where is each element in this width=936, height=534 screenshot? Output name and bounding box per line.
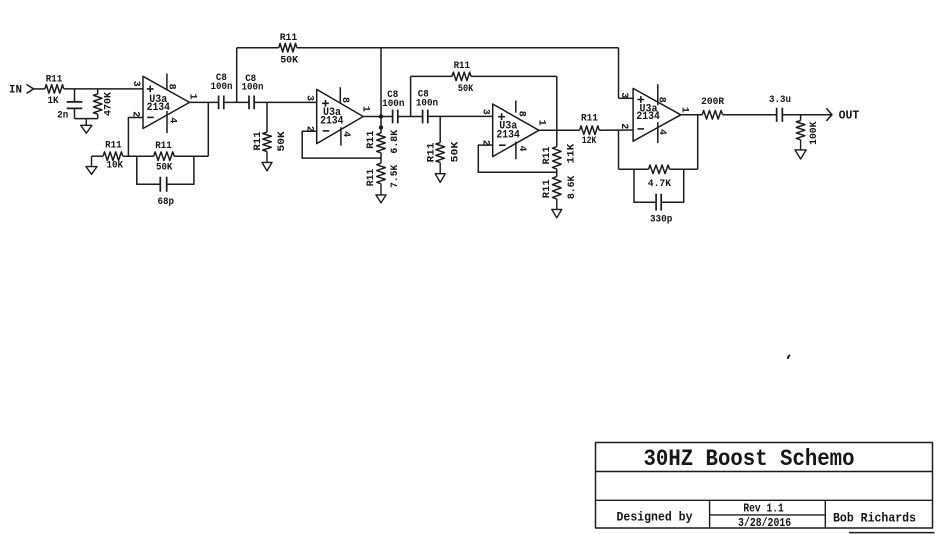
svg-text:R11: R11 xyxy=(541,147,553,165)
svg-text:R11: R11 xyxy=(581,113,598,125)
resistor R11 50K (stage2 input shunt) xyxy=(252,102,288,151)
title block outer frame xyxy=(596,443,933,529)
wire feedback rail right segment and riser to U4 output xyxy=(670,115,698,170)
ground (stage2 divider) xyxy=(376,184,386,203)
svg-text:Designed by: Designed by xyxy=(617,511,693,525)
resistor R11 50K (stage3 input shunt) xyxy=(425,116,461,162)
resistor R11 12K xyxy=(580,113,600,147)
svg-text:8: 8 xyxy=(656,97,667,103)
svg-text:100n: 100n xyxy=(416,97,438,109)
svg-text:3: 3 xyxy=(618,92,629,98)
svg-text:3: 3 xyxy=(304,95,315,101)
wire top rail left segment xyxy=(237,47,279,49)
svg-text:330p: 330p xyxy=(650,213,673,225)
wire C8 to U3 pin 3 xyxy=(428,115,493,117)
svg-text:3: 3 xyxy=(480,109,491,115)
svg-text:Bob Richards: Bob Richards xyxy=(833,511,916,525)
svg-text:R11: R11 xyxy=(454,60,470,72)
svg-text:10K: 10K xyxy=(107,160,124,172)
svg-text:R11: R11 xyxy=(46,73,63,85)
op-amp U3a 2134 (stage 4) xyxy=(618,84,690,143)
capacitor C8 100n (third coupling) xyxy=(382,89,404,123)
svg-text:2134: 2134 xyxy=(636,111,660,123)
svg-text:1: 1 xyxy=(535,120,546,126)
svg-text:1: 1 xyxy=(679,107,690,113)
wire top rail right segment to U4 pin3 riser xyxy=(297,48,619,99)
wire U2 output node down to R11 6.8K xyxy=(380,117,382,134)
svg-text:2134: 2134 xyxy=(496,129,520,141)
wire IN port to R11 1K xyxy=(34,88,45,90)
scan speck xyxy=(788,355,791,359)
wire U3 output node down to R11 11K xyxy=(556,130,558,146)
svg-text:11K: 11K xyxy=(566,143,578,163)
wire feedback rail left segment xyxy=(619,168,649,170)
ground (stage3 input shunt) xyxy=(435,163,445,183)
svg-text:100n: 100n xyxy=(242,82,264,94)
wire C8 to C8 with rail2 riser xyxy=(398,116,423,118)
title block edge segment bottom right xyxy=(849,532,935,534)
svg-text:4: 4 xyxy=(166,117,177,123)
svg-text:50K: 50K xyxy=(458,83,474,95)
wire R11 50K to output riser xyxy=(174,102,208,156)
wire U4 pin3 stub from top rail riser xyxy=(619,97,634,99)
resistor R11 6.8K xyxy=(365,129,401,153)
svg-text:2134: 2134 xyxy=(147,102,171,114)
svg-text:4: 4 xyxy=(516,145,527,151)
svg-text:R11: R11 xyxy=(252,131,264,150)
ground (input RC) xyxy=(81,119,92,134)
riser top rail to U2 output node xyxy=(380,48,382,117)
svg-text:50K: 50K xyxy=(449,141,461,162)
wire 6.8K to 7.5K junction xyxy=(380,153,382,163)
svg-text:100n: 100n xyxy=(382,98,404,110)
svg-text:R11: R11 xyxy=(365,169,377,187)
wire rail2 left segment xyxy=(411,75,452,77)
svg-text:2: 2 xyxy=(130,111,141,117)
wire 200R to 3.3u xyxy=(723,114,777,116)
svg-text:470K: 470K xyxy=(102,91,114,116)
svg-text:2134: 2134 xyxy=(320,115,344,127)
wire R11 1K to U1 pin 3 (input net) xyxy=(64,88,143,90)
capacitor 330p (parallel feedback) xyxy=(634,169,684,225)
capacitor C8 100n (first coupling) xyxy=(211,72,233,109)
wire 2n to 470K bottom rail xyxy=(75,118,98,120)
wire C8 to U2 pin 3 xyxy=(254,101,317,103)
svg-text:8.6K: 8.6K xyxy=(566,175,578,199)
svg-text:IN: IN xyxy=(9,84,22,96)
svg-text:2: 2 xyxy=(618,123,629,129)
capacitor C8 100n (second coupling) xyxy=(242,73,264,109)
capacitor 2n (input shunt) xyxy=(57,89,82,122)
capacitor 68p (parallel feedback) xyxy=(137,156,194,208)
riser to stage3 feedback rail xyxy=(410,76,412,116)
wire U4 output xyxy=(681,114,702,116)
wire U3 output xyxy=(539,129,580,131)
capacitor 3.3u (output coupling) xyxy=(769,94,791,122)
port IN connector chevron xyxy=(27,84,34,93)
svg-text:3/28/2016: 3/28/2016 xyxy=(738,517,791,530)
ground (stage2 input shunt) xyxy=(262,152,272,171)
svg-text:50K: 50K xyxy=(280,55,299,67)
resistor R11 50K (stage3 feedback) xyxy=(452,60,474,95)
ground (output shunt) xyxy=(795,140,806,159)
svg-text:8: 8 xyxy=(166,84,177,90)
svg-text:4.7K: 4.7K xyxy=(648,178,672,190)
svg-text:2n: 2n xyxy=(57,110,68,122)
wire U1 pin2 stub xyxy=(128,118,143,157)
ground (stage1 feedback) xyxy=(86,156,97,174)
resistor R11 10K xyxy=(103,139,124,171)
resistor 470K (input shunt) xyxy=(93,89,114,119)
wire U2 output to C8 xyxy=(363,116,392,118)
resistor R11 11K xyxy=(541,143,577,169)
svg-text:3: 3 xyxy=(130,81,141,87)
resistor 100K (output shunt) xyxy=(796,115,820,145)
svg-text:50K: 50K xyxy=(276,131,288,152)
wire U1 pin1 output xyxy=(190,101,219,103)
svg-text:R11: R11 xyxy=(155,140,172,152)
op-amp U3a 2134 (stage 3) xyxy=(480,101,547,160)
svg-text:50K: 50K xyxy=(156,161,173,173)
riser U4 pin2 node to feedback rail xyxy=(618,130,620,169)
capacitor C8 100n (fourth coupling) xyxy=(416,88,438,123)
svg-text:8: 8 xyxy=(339,97,350,103)
title block line above bottom row xyxy=(596,499,933,501)
junction dot U2 output node xyxy=(379,114,383,118)
resistor R11 8.6K xyxy=(541,175,578,199)
svg-text:68p: 68p xyxy=(158,196,175,208)
svg-text:1K: 1K xyxy=(48,95,60,107)
resistor R11 50K (stage1 feedback) xyxy=(154,140,174,174)
op-amp U3a 2134 (stage 2) xyxy=(304,87,371,145)
title block line under title xyxy=(596,471,933,473)
svg-text:OUT: OUT xyxy=(839,110,860,123)
title block mid line between Rev and date xyxy=(710,514,826,516)
svg-text:4: 4 xyxy=(656,129,667,135)
junction dot on divider wire xyxy=(379,125,383,129)
title block divider Designed-by / Rev xyxy=(709,500,711,528)
op-amp U3a 2134 (stage 1) xyxy=(130,74,198,133)
svg-text:R11: R11 xyxy=(365,131,377,149)
wire 12K to U4 pin 2 xyxy=(599,129,633,131)
svg-text:30HZ Boost Schemo: 30HZ Boost Schemo xyxy=(644,446,855,472)
svg-text:7.5K: 7.5K xyxy=(389,164,401,188)
ground (stage3 divider) xyxy=(552,199,562,218)
port OUT arrowhead xyxy=(826,108,832,121)
svg-text:100n: 100n xyxy=(211,81,233,93)
svg-text:100K: 100K xyxy=(808,121,820,145)
title block divider Rev / Bob Richards xyxy=(824,500,826,528)
svg-text:200R: 200R xyxy=(701,96,725,108)
svg-text:Rev 1.1: Rev 1.1 xyxy=(743,503,783,516)
resistor R11 1K xyxy=(45,73,64,107)
svg-text:12K: 12K xyxy=(582,135,597,147)
svg-text:6.8K: 6.8K xyxy=(389,129,401,153)
wire ground to R11 10K xyxy=(92,155,104,157)
resistor R11 50K (top rail) xyxy=(279,32,299,67)
svg-text:R11: R11 xyxy=(280,32,298,44)
resistor R11 7.5K xyxy=(365,163,401,188)
wire R11 10K to R11 50K (node pin2) xyxy=(123,155,154,157)
svg-text:R11: R11 xyxy=(105,139,122,151)
wire 3.3u to OUT arrow xyxy=(782,114,832,116)
svg-text:1: 1 xyxy=(359,106,370,112)
svg-text:3.3u: 3.3u xyxy=(769,94,791,106)
svg-text:R11: R11 xyxy=(541,179,553,198)
svg-text:1: 1 xyxy=(186,93,197,99)
wire U2 pin2 stub to divider xyxy=(302,131,381,158)
wire rail2 right segment and riser to U3 output xyxy=(471,76,557,130)
svg-text:4: 4 xyxy=(340,131,351,137)
svg-text:R11: R11 xyxy=(425,143,437,163)
riser to top feedback rail xyxy=(236,48,238,103)
resistor 200R xyxy=(701,96,725,119)
wire C8 to C8 (node with riser) xyxy=(224,101,249,103)
svg-text:8: 8 xyxy=(515,111,526,117)
wire U3 pin2 stub to divider xyxy=(478,145,557,172)
wire 11K to 8.6K junction xyxy=(556,169,558,177)
resistor 4.7K (stage4 feedback) xyxy=(648,165,672,190)
